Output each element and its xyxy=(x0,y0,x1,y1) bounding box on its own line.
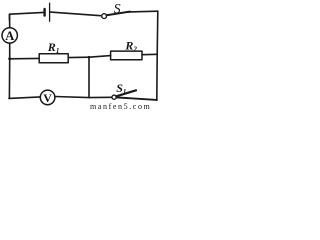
svg-text:V: V xyxy=(43,91,52,105)
battery B short negative plate xyxy=(43,9,45,16)
ammeter A circle xyxy=(2,28,17,43)
switch S1 pivot circle xyxy=(112,95,116,99)
node T-junction left xyxy=(8,59,10,99)
wire junction vertical down xyxy=(88,57,90,97)
svg-text:manfen5.com: manfen5.com xyxy=(90,102,151,111)
svg-text:A: A xyxy=(5,29,14,43)
svg-text:S: S xyxy=(114,2,121,17)
wire switch to top-right corner xyxy=(129,10,158,13)
wire bottom-left corner to voltmeter xyxy=(9,97,40,99)
node junction dot left xyxy=(8,57,11,60)
node junction dot middle xyxy=(88,56,91,59)
switch S blade xyxy=(107,12,130,16)
wire right vertical xyxy=(156,11,159,54)
wire top-left: corner to battery negative xyxy=(10,12,44,20)
wire middle row to R1 xyxy=(10,57,40,59)
wire R2 to right vertical xyxy=(142,53,157,55)
switch S1 blade xyxy=(116,90,136,96)
node junction between R1 and R2 xyxy=(89,56,111,58)
wire right vertical lower xyxy=(156,55,158,101)
wire R1 to node xyxy=(68,56,89,58)
voltmeter V circle xyxy=(40,90,55,105)
wire left vertical upper (corner to ammeter) xyxy=(9,14,11,28)
switch S pivot circle xyxy=(102,14,107,19)
resistor R1 box xyxy=(39,54,68,63)
resistor R2 box xyxy=(111,51,142,60)
wire S1 to bottom-right corner xyxy=(117,97,157,100)
wire ammeter to middle node xyxy=(9,43,11,59)
wire voltmeter to switch S1 xyxy=(55,97,112,98)
wire battery to switch S xyxy=(50,12,100,16)
battery B long positive plate xyxy=(49,3,51,21)
